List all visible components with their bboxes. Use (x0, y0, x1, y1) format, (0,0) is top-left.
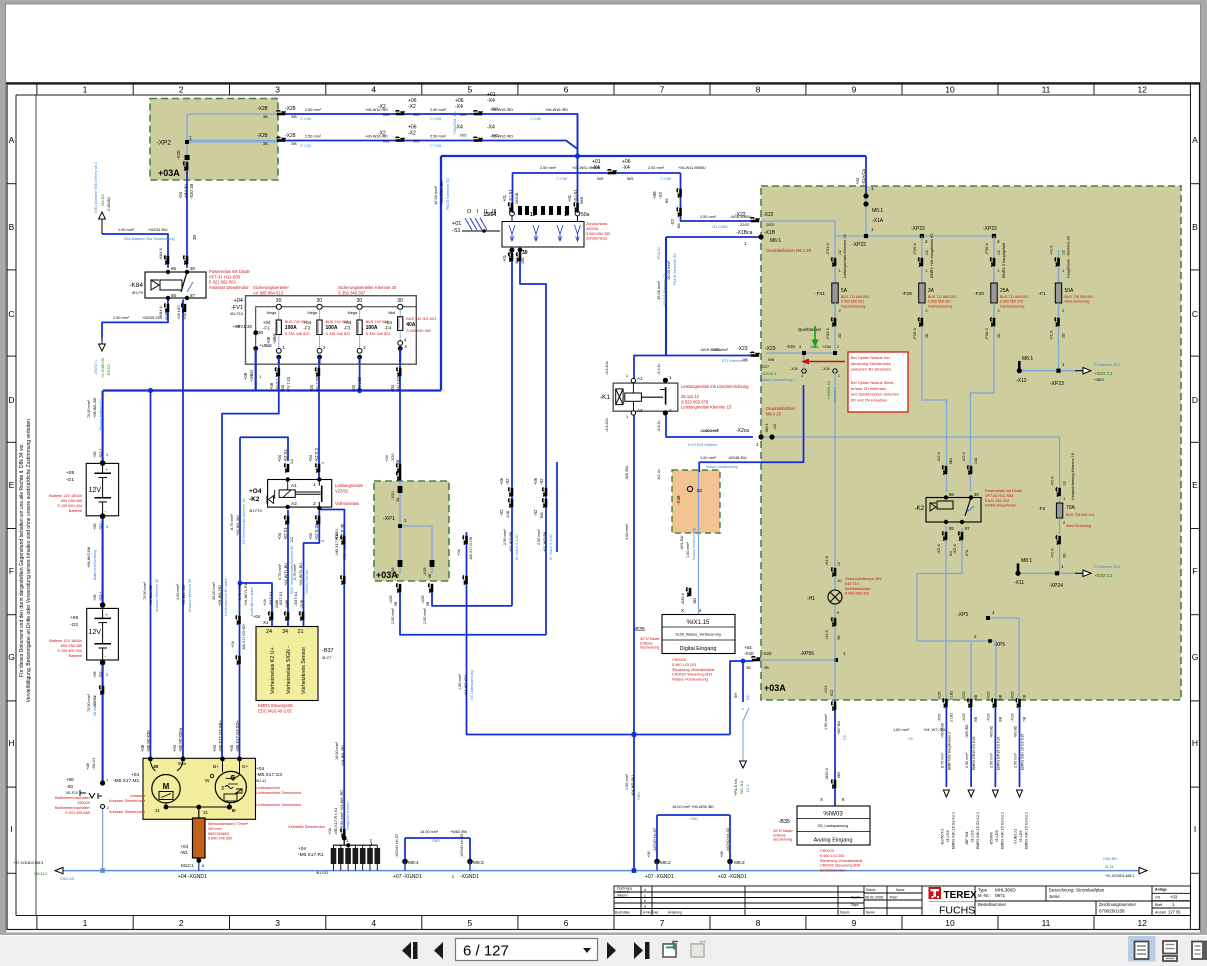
wire -X2 drop to -X22 (681, 173, 754, 221)
S1 internal contacts (509, 225, 515, 241)
wire -W1 to ground (198, 858, 200, 871)
wire battery column (102, 391, 104, 462)
svg-text:Zündschloss: Zündschloss (586, 222, 607, 226)
svg-text:-K2:X: -K2:X (952, 544, 957, 554)
+UBat exit column (255, 349, 257, 391)
svg-text:-X23: -X23 (1010, 713, 1015, 722)
svg-text:Anlasser Klemme 30: Anlasser Klemme 30 (155, 579, 159, 612)
svg-text:H: H (1192, 738, 1198, 748)
toolbar page combo (456, 939, 598, 961)
svg-text:34: 34 (282, 629, 288, 635)
wire -K1:A2 ground run (633, 412, 635, 871)
svg-text:3B: 3B (764, 666, 769, 670)
svg-text:-M0.X17.G3:XB+: -M0.X17.G3:XB+ (218, 720, 223, 752)
svg-text:A1: A1 (637, 376, 643, 381)
svg-text:-FV t:4b: -FV t:4b (396, 376, 401, 392)
svg-text:Zeichnungsnummer: Zeichnungsnummer (1099, 902, 1137, 907)
svg-text:2.50 mm²: 2.50 mm² (648, 166, 665, 170)
svg-text:I: I (10, 824, 12, 834)
svg-text:X: X (820, 797, 823, 802)
wire -XP22 distribution row (835, 235, 994, 237)
svg-text:BUS 711 699-002: BUS 711 699-002 (1000, 295, 1028, 299)
svg-text:K84 Anlasser 30a Vorsteuerung: K84 Anlasser 30a Vorsteuerung (124, 237, 175, 241)
svg-text:M6 x 20: M6 x 20 (766, 411, 782, 416)
svg-text:2: 2 (106, 673, 108, 677)
svg-text:Flachsicherung: Flachsicherung (841, 304, 865, 308)
svg-text:-K84:X: -K84:X (158, 247, 163, 260)
svg-text:-F31:X: -F31:X (825, 328, 830, 340)
plc input %IX1.15 (662, 615, 735, 654)
svg-text:30: 30 (317, 298, 323, 304)
svg-text:B+: B+ (213, 764, 219, 770)
svg-text:+X34: +X34 (822, 345, 831, 349)
svg-text:Analog Eingang: Analog Eingang (814, 838, 853, 844)
svg-text:-S t:X1: -S t:X1 (508, 189, 513, 202)
svg-text:+W235 /GN: +W235 /GN (142, 316, 162, 320)
svg-text:-X25: -X25 (936, 713, 941, 722)
svg-text:-K2:X1: -K2:X1 (283, 527, 288, 540)
svg-text:+04-W/TL.BU: +04-W/TL.BU (299, 563, 303, 586)
svg-text:+08: +08 (66, 777, 74, 782)
svg-text:V23/32: V23/32 (335, 488, 349, 493)
wire -S1 30 down (520, 250, 546, 635)
svg-text:+03 t:87: +03 t:87 (176, 305, 181, 320)
svg-text:0.75 mm²: 0.75 mm² (278, 563, 282, 580)
svg-text:2.50 mm²: 2.50 mm² (391, 607, 395, 624)
svg-text:1.50 mm²: 1.50 mm² (458, 673, 462, 690)
svg-text:70.00 mm²: 70.00 mm² (87, 399, 91, 418)
svg-text:25A: 25A (1000, 288, 1010, 294)
svg-text:G5 Ladespannung: G5 Ladespannung (470, 670, 474, 700)
svg-text:Flachsicherung: Flachsicherung (928, 304, 952, 308)
svg-text:35.00 mm²: 35.00 mm² (212, 581, 216, 600)
relay -K84 (145, 272, 206, 298)
svg-text:-X23: -X23 (737, 346, 748, 352)
svg-text:Vervielfältigung, Bekanntgabe: Vervielfältigung, Bekanntgabe an Dritte … (26, 418, 32, 703)
ground rail -XGND1 (55, 870, 1147, 872)
wire -X1B row (666, 236, 761, 238)
svg-text:-FV1: -FV1 (231, 305, 243, 311)
svg-text:-X1A: -X1A (872, 218, 884, 224)
svg-text:+04: +04 (280, 384, 285, 392)
svg-text:3B: 3B (263, 115, 268, 119)
option region +03A right big (761, 186, 1181, 700)
svg-text:-XGND t:b-07: -XGND t:b-07 (652, 827, 657, 852)
svg-text:+08: +08 (70, 615, 78, 621)
option region +03A top-left (150, 99, 278, 181)
svg-text:7/B: 7/B (1023, 694, 1027, 700)
svg-text:9.50 mm² +04-W/L.RD: 9.50 mm² +04-W/L.RD (340, 790, 344, 828)
svg-text:600 038 085: 600 038 085 (61, 499, 82, 503)
svg-text:a: a (644, 905, 646, 909)
svg-text:BUS 738 595-101: BUS 738 595-101 (1066, 513, 1095, 517)
svg-text:+04: +04 (456, 548, 461, 556)
svg-text:Vorheizrelais K2 U+: Vorheizrelais K2 U+ (270, 647, 276, 694)
svg-text:Powerrelais mit Diode: Powerrelais mit Diode (209, 269, 250, 274)
svg-text:2D: 2D (925, 333, 929, 338)
wire -X28:8B to -S1 circuit (432, 592, 512, 606)
svg-text:4.00 mm²: 4.00 mm² (176, 583, 180, 600)
svg-text:-X2: -X2 (499, 509, 504, 516)
svg-text:M6:1: M6:1 (1022, 356, 1033, 362)
svg-text:BUS 711 684-002: BUS 711 684-002 (841, 295, 869, 299)
svg-text:Powerrelais mit Diode: Powerrelais mit Diode (985, 489, 1022, 493)
svg-text:+04: +04 (229, 744, 234, 752)
toolbar facing view (1192, 942, 1203, 960)
svg-text:+04: +04 (308, 532, 313, 540)
svg-text:+08: +08 (66, 470, 74, 476)
svg-text:-X23: -X23 (1010, 691, 1015, 700)
svg-text:+04-W/L.RD: +04-W/L.RD (341, 745, 345, 766)
svg-text:+03A: +03A (764, 683, 786, 693)
svg-text:Maxi-Sicherung: Maxi-Sicherung (1065, 300, 1090, 304)
svg-text:S 350 346 823: S 350 346 823 (326, 332, 351, 336)
svg-text:+04: +04 (230, 640, 235, 648)
svg-text:-X28: -X28 (388, 595, 393, 604)
svg-text:50/B: 50/B (580, 196, 584, 204)
svg-text:+08: +08 (243, 372, 248, 380)
svg-text:10: 10 (837, 562, 841, 566)
svg-text:E: E (9, 480, 15, 490)
svg-text:4/4B: 4/4B (506, 510, 510, 518)
ignition switch -S1 (502, 222, 584, 248)
svg-text:+03/2.C1: +03/2.C1 (1094, 573, 1113, 578)
wire -XP23 row (1019, 370, 1083, 372)
svg-text:5652346853: 5652346853 (208, 832, 229, 836)
svg-text:G5_Ladespannung: G5_Ladespannung (818, 824, 849, 828)
svg-text:5 050 650 391: 5 050 650 391 (841, 300, 864, 304)
svg-text:B/B: B/B (540, 512, 544, 518)
svg-text:Hauptrelais - Klemme 30: Hauptrelais - Klemme 30 (1067, 236, 1071, 278)
svg-text:3/B: 3/B (291, 142, 297, 146)
svg-text:CR0020: CR0020 (820, 849, 834, 853)
svg-text:-M0.Mt:X30: -M0.Mt:X30 (146, 730, 151, 752)
svg-text:+04: +04 (351, 384, 356, 392)
svg-text:6 / 127: 6 / 127 (463, 943, 509, 960)
svg-text:+04 -XGND1: +04 -XGND1 (178, 874, 207, 880)
svg-text:3/4/B: 3/4/B (285, 599, 289, 608)
svg-text:1.00 mm²: 1.00 mm² (686, 541, 690, 558)
svg-text:21: 21 (298, 629, 304, 635)
svg-text:Lichtmaschine B+ laden: Lichtmaschine B+ laden (224, 578, 228, 616)
svg-text:+01: +01 (502, 194, 507, 202)
svg-text:EMR3 S hauptgehält: EMR3 S hauptgehält (1002, 242, 1006, 278)
svg-text:+04: +04 (855, 177, 860, 185)
svg-text:-XP5: -XP5 (957, 612, 968, 618)
svg-text:-X22: -X22 (763, 212, 774, 218)
svg-text:005: 005 (383, 113, 389, 117)
svg-text:Bestellnummer: Bestellnummer (978, 902, 1007, 907)
svg-text:86: 86 (171, 266, 177, 271)
svg-text:6790200158: 6790200158 (1099, 909, 1125, 914)
wire -H1 column (834, 437, 836, 590)
relay -K2 khaki (EMR3 main) (926, 498, 981, 523)
svg-text:%IW03: %IW03 (823, 812, 843, 818)
svg-text:C: C (1192, 309, 1198, 319)
svg-text:M8:1: M8:1 (1021, 558, 1032, 564)
svg-text:005: 005 (492, 134, 498, 138)
svg-text:+04: +04 (277, 454, 282, 462)
svg-text:+08: +08 (93, 524, 97, 530)
svg-text:+04-W/L.GD: +04-W/L.GD (182, 585, 186, 606)
svg-text:2D: 2D (838, 333, 842, 338)
svg-text:FUCHS: FUCHS (939, 905, 975, 917)
svg-text:/31.C06A: /31.C06A (712, 225, 728, 229)
svg-text:+08-W/L.BK: +08-W/L.BK (93, 397, 97, 418)
svg-text:-K2:X: -K2:X (961, 452, 966, 462)
svg-text:-S0:X1: -S0:X1 (91, 757, 96, 770)
svg-text:-M0.X17.R t:X1: -M0.X17.R t:X1 (333, 807, 338, 835)
svg-text:-F2:X: -F2:X (1050, 476, 1055, 486)
wire -F1 column (1058, 250, 1060, 371)
svg-text:3/B: 3/B (291, 115, 297, 119)
svg-text:9/B: 9/B (974, 716, 978, 722)
svg-text:-X2: -X2 (539, 478, 544, 485)
svg-text:M6:1: M6:1 (764, 422, 769, 432)
svg-text:A: A (9, 135, 15, 145)
svg-text:2.50 mm²: 2.50 mm² (1014, 752, 1018, 768)
svg-text:2: 2 (837, 345, 839, 349)
svg-text:-S t:X1: -S t:X1 (573, 189, 578, 202)
svg-text:-G2:-: -G2:- (99, 669, 103, 678)
svg-text:/7.C06: /7.C06 (660, 177, 671, 181)
svg-text:30: 30 (357, 298, 363, 304)
svg-text:+04: +04 (180, 844, 188, 849)
svg-text:/3.LD6: /3.LD6 (994, 829, 999, 842)
svg-text:-F29: -F29 (902, 291, 912, 297)
wire ignition feed 50a (577, 114, 579, 213)
wire khaki k15 row (761, 436, 1060, 438)
svg-text:/3.LC6: /3.LC6 (945, 829, 950, 842)
wire FV1:1 to B+ (222, 357, 279, 759)
battery -G1 (86, 463, 118, 515)
svg-text:Pluspol Batterie G1: Pluspol Batterie G1 (99, 399, 103, 430)
svg-text:D+: D+ (242, 764, 248, 770)
svg-text:4: 4 (801, 374, 803, 378)
wire branch to -K2 coil (240, 437, 288, 461)
svg-text:/81.F10: /81.F10 (66, 791, 78, 795)
svg-text:-UBat: -UBat (272, 332, 277, 344)
svg-text:O: O (467, 209, 472, 215)
svg-text:2.50 mm²: 2.50 mm² (540, 166, 557, 170)
svg-text:+W234 /BU: +W234 /BU (148, 228, 168, 232)
svg-text:Batterie: Batterie (69, 654, 82, 658)
wire -X28/4 row to -X4 (187, 140, 278, 142)
svg-text:W: W (205, 778, 210, 784)
svg-text:/59.J10: /59.J10 (739, 780, 744, 794)
svg-text:EMR3 DR15 G3 K15: EMR3 DR15 G3 K15 (972, 737, 976, 770)
svg-text:5A: 5A (841, 288, 848, 294)
svg-text:Flachsicherung: Flachsicherung (1000, 304, 1024, 308)
svg-text:600 038 085: 600 038 085 (61, 644, 82, 648)
svg-text:M8:3: M8:3 (473, 860, 484, 866)
svg-text:5 050 650 370: 5 050 650 370 (1000, 300, 1023, 304)
S1 column connectors (509, 202, 510, 211)
svg-text:2/1/B: 2/1/B (300, 599, 304, 608)
svg-text:-XP24: -XP24 (1049, 583, 1063, 589)
svg-text:-B37:X1: -B37:X1 (268, 591, 273, 606)
plc input %IW03 (797, 806, 870, 845)
svg-text:5 821 662 002: 5 821 662 002 (985, 499, 1009, 503)
svg-text:MHL360D: MHL360D (995, 888, 1016, 893)
svg-text:K.EZ E04+5diesel: K.EZ E04+5diesel (688, 443, 717, 447)
battery switch -S0 connector (100, 685, 101, 694)
svg-text:0.75 mm²: 0.75 mm² (293, 563, 297, 580)
svg-text:+08: +08 (85, 762, 90, 770)
svg-text:005: 005 (383, 140, 389, 144)
svg-text:A2: A2 (637, 408, 643, 413)
svg-text:2B: 2B (396, 459, 400, 464)
svg-text:+04: +04 (384, 454, 389, 462)
svg-text:-K t:1c: -K t:1c (656, 363, 661, 375)
viewer toolbar (0, 933, 1207, 966)
svg-text:-M0.X17.R t:X1: -M0.X17.R t:X1 (334, 528, 339, 556)
wire -S1 15/54 down (511, 250, 513, 606)
svg-text:390000: 390000 (77, 801, 90, 805)
wire khaki bottom drops to EMR3 (945, 707, 947, 787)
svg-text:5: 5 (468, 85, 473, 95)
svg-text:+06: +06 (499, 477, 504, 485)
wire -K1:2 to khaki -X2ca (666, 412, 753, 437)
svg-text:2002: 2002 (766, 223, 774, 227)
svg-text:+04-W1/L.BK: +04-W1/L.BK (439, 181, 444, 205)
svg-text:-X22: -X22 (823, 685, 828, 694)
svg-text:-F30: -F30 (974, 291, 984, 297)
svg-text:+03: +03 (1170, 895, 1178, 900)
svg-text:-XP2: -XP2 (157, 140, 172, 147)
svg-text:+06: +06 (646, 850, 651, 858)
svg-text:Leistungsrelais: Leistungsrelais (335, 483, 363, 488)
wire -K84:85 to ground ref (102, 300, 168, 339)
svg-text:-G2:+: -G2:+ (99, 591, 103, 601)
svg-text:+08: +08 (93, 595, 97, 601)
svg-text:-XGND t:b-03: -XGND t:b-03 (459, 833, 464, 858)
svg-text:+04-W5 /BU: +04-W5 /BU (631, 775, 635, 796)
svg-text:0971: 0971 (995, 893, 1006, 898)
svg-text:-X12: -X12 (1016, 378, 1027, 384)
svg-text:-W246 /BU: -W246 /BU (728, 456, 747, 460)
wire khaki exit to analog input (834, 660, 836, 700)
svg-text:-M0.X17.G3:XD+: -M0.X17.G3:XD+ (242, 623, 246, 650)
svg-text:-X2: -X2 (658, 192, 663, 200)
svg-text:-K1:2c: -K1:2c (656, 420, 661, 432)
wire 16mm2 down to -K1 (665, 237, 667, 356)
svg-text:BMR G02 Hauptrelais 1: BMR G02 Hauptrelais 1 (947, 732, 951, 770)
svg-text:11: 11 (1042, 918, 1051, 928)
svg-text:4BF 901: 4BF 901 (965, 831, 969, 845)
wire -X1A feed (865, 156, 867, 196)
option region +03A middle small (374, 481, 449, 581)
svg-text:50a: 50a (178, 761, 186, 767)
svg-text:-M0.X17.G3:XD+: -M0.X17.G3:XD+ (235, 719, 240, 752)
svg-text:X1: X1 (263, 620, 269, 625)
svg-text:+04-W/L.RD: +04-W/L.RD (149, 585, 153, 606)
svg-text:30: 30 (397, 298, 403, 304)
svg-text:+04: +04 (131, 772, 139, 778)
svg-text:+04: +04 (744, 645, 752, 650)
wire -F31 column (834, 236, 836, 356)
svg-text:Bearb.: Bearb. (851, 896, 861, 900)
svg-text:EMR3 Hauptrelais: EMR3 Hauptrelais (985, 504, 1016, 508)
svg-text:-W19 /BKBU: -W19 /BKBU (700, 348, 722, 352)
svg-text:M8:4: M8:4 (408, 860, 419, 866)
fuse -F31 khaki (832, 257, 833, 266)
svg-text:G: G (8, 652, 15, 662)
svg-text:G5: G5 (908, 737, 913, 741)
svg-text:+07 -XGND1: +07 -XGND1 (645, 874, 674, 880)
svg-text:brücke 2D entfernen: brücke 2D entfernen (851, 386, 886, 391)
svg-text:-K2: -K2 (915, 506, 925, 512)
svg-text:B: B (9, 222, 15, 232)
svg-text:+0 N’88.H5: +0 N’88.H5 (100, 357, 105, 378)
red jumper arrow (804, 361, 845, 363)
generator G alternator (215, 771, 246, 802)
wire -K2:A2 to -B37:34 (287, 510, 289, 626)
svg-text:Notaus Vorsteuerung: Notaus Vorsteuerung (672, 678, 708, 682)
wire trunk klemme30 horizontal (441, 155, 866, 157)
svg-text:beschreibung: beschreibung (640, 646, 659, 650)
svg-text:Betriebstunden: Betriebstunden (820, 869, 846, 873)
svg-text:+04: +04 (277, 532, 282, 540)
svg-text:Steuerung Zentralelektrik: Steuerung Zentralelektrik (820, 859, 863, 863)
svg-text:-X28: -X28 (390, 567, 395, 576)
svg-text:6: 6 (564, 85, 569, 95)
svg-text:Vorheizrelais: Vorheizrelais (335, 501, 359, 506)
svg-text:Anlasser Dieselmotor: Anlasser Dieselmotor (209, 285, 249, 290)
svg-text:-XP56: -XP56 (800, 651, 814, 657)
svg-text:Stromlaufplan: Stromlaufplan (1076, 888, 1105, 893)
svg-text:85: 85 (171, 293, 177, 298)
svg-text:F1 Klemme 30.3: F1 Klemme 30.3 (1094, 363, 1120, 367)
svg-text:Kontrolle fur laden: Kontrolle fur laden (250, 587, 254, 616)
svg-text:WB: WB (768, 358, 775, 362)
svg-text:Datum: Datum (840, 911, 850, 915)
wire -X28/3 row to -X4 (187, 113, 278, 115)
svg-text:Batterie 12V 180Ah: Batterie 12V 180Ah (49, 494, 82, 498)
wire row -WS1 to ignition 15/54 (513, 173, 681, 213)
svg-text:/7.C05: /7.C05 (556, 177, 567, 181)
svg-text:-G2: -G2 (70, 622, 78, 628)
svg-text:2 1B2: 2 1B2 (949, 713, 953, 722)
svg-text:35.111.12: 35.111.12 (681, 394, 700, 399)
svg-text:5C2: 5C2 (830, 690, 834, 696)
svg-text:-K2:X1: -K2:X1 (283, 449, 288, 462)
svg-text:-K84:30: -K84:30 (184, 184, 189, 199)
wire trunk down to battery rail (440, 156, 442, 391)
svg-text:005: 005 (413, 113, 419, 117)
svg-text:9/B: 9/B (974, 694, 978, 700)
svg-text:+04: +04 (304, 320, 312, 325)
svg-text:+UBat: +UBat (249, 369, 254, 382)
svg-text:+W7.BU: +W7.BU (837, 721, 841, 736)
fuse -F1 (Mega) (276, 304, 281, 309)
svg-text:30: 30 (276, 298, 282, 304)
svg-text:M8:2: M8:2 (660, 860, 671, 866)
svg-text:F2 Klemme 15.5: F2 Klemme 15.5 (1094, 565, 1120, 569)
svg-text:d: d (644, 888, 646, 892)
svg-text:2.50 mm²: 2.50 mm² (305, 135, 322, 139)
svg-text:EMR3 DR15 G3 K15: EMR3 DR15 G3 K15 (996, 737, 1000, 770)
svg-text:+: + (106, 467, 109, 472)
svg-text:G: G (1192, 652, 1199, 662)
wire -X34 option row (766, 352, 835, 354)
svg-text:9B: 9B (394, 601, 398, 606)
svg-text:-K2:X:3a: -K2:X:3a (314, 523, 319, 540)
svg-text:10A: 10A (974, 457, 978, 464)
svg-text:Glassockellampe 28V: Glassockellampe 28V (845, 577, 882, 581)
svg-text:2: 2 (179, 918, 184, 928)
svg-text:300 mm: 300 mm (208, 827, 222, 831)
